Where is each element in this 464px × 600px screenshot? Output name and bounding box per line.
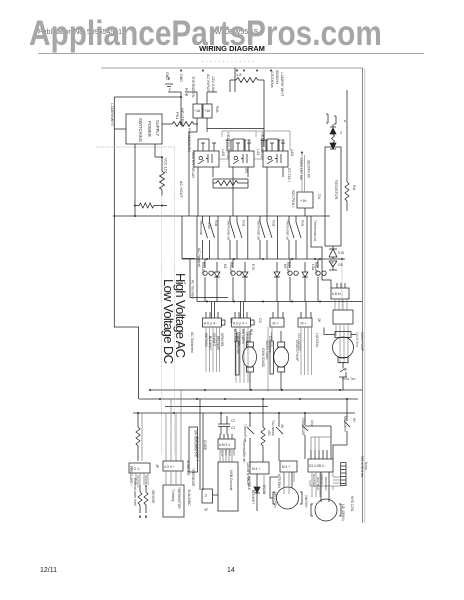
- label p5: [332, 292, 342, 296]
- label VCC: [164, 158, 168, 174]
- label oven sw: [299, 158, 311, 180]
- thermostat S1: [203, 216, 215, 259]
- svg-text:3L WATER: 3L WATER: [186, 460, 190, 476]
- label L1BRK left: [110, 103, 114, 127]
- svg-text:WHT/VIO: WHT/VIO: [204, 333, 208, 347]
- relay K1 heater: [194, 151, 219, 167]
- wire bus413: [133, 412, 355, 414]
- svg-text:A h p 4 -: A h p 4 -: [204, 322, 218, 326]
- svg-text:2: 2: [340, 131, 342, 135]
- wire bend right: [311, 216, 322, 267]
- svg-text:SENSOR: SENSOR: [151, 490, 155, 504]
- wire dotted 342: [341, 259, 343, 310]
- strip connector: [341, 463, 346, 486]
- relay K2 contacts: [233, 139, 251, 151]
- resistor RC filter: [213, 181, 241, 186]
- wire inter4: [306, 216, 308, 259]
- svg-text:WIRING DIAGRAM: WIRING DIAGRAM: [199, 44, 265, 53]
- label relay3: [283, 262, 290, 274]
- diode d3: [274, 262, 280, 302]
- label s2: [227, 219, 246, 240]
- switch door closed: [302, 413, 308, 459]
- svg-text:C3: C3: [231, 426, 235, 430]
- switch lid: [344, 399, 350, 445]
- label harness j2: [233, 329, 253, 347]
- diode down filled: [330, 124, 336, 149]
- connector JE: [308, 459, 333, 472]
- svg-text:Noise: Noise: [364, 462, 368, 470]
- svg-text:3L AL39DC: 3L AL39DC: [187, 489, 191, 506]
- svg-text:GND: GND: [179, 74, 183, 82]
- svg-text:L43: L43: [256, 149, 260, 155]
- harness j3 drop: [268, 327, 272, 391]
- label relay4: [311, 262, 334, 274]
- svg-text:L&S: L&S: [290, 149, 294, 157]
- label ja bundle: [136, 475, 148, 488]
- nodes bus390: [204, 389, 206, 391]
- svg-text:SECPAN I: SECPAN I: [291, 190, 295, 207]
- lock assembly box: [325, 147, 341, 246]
- label rc: [244, 168, 248, 173]
- diode offhi lower: [329, 261, 337, 270]
- wire k3 drop: [267, 167, 283, 216]
- svg-text:BLK/RED: BLK/RED: [312, 474, 316, 488]
- boundary dotted high voltage: [174, 147, 176, 455]
- relay K1 coil: [198, 154, 212, 164]
- label header wires: [220, 450, 236, 457]
- label door closed: [301, 418, 314, 436]
- svg-text:K8: K8: [223, 264, 227, 268]
- label j3: [273, 322, 279, 326]
- wire second left: [141, 413, 143, 461]
- svg-text:A M 3 4: A M 3 4: [219, 443, 230, 447]
- wire gray feed k2: [222, 131, 256, 137]
- svg-text:BLU: BLU: [249, 329, 253, 336]
- boundary gray line: [96, 146, 175, 148]
- box DSW tall: [189, 427, 198, 472]
- label dsw tall: [194, 430, 198, 457]
- node b259: [206, 258, 208, 260]
- header board: [218, 439, 235, 449]
- svg-text:Low Voltage DC: Low Voltage DC: [161, 279, 176, 364]
- svg-text:C5: C5: [258, 318, 262, 323]
- resistor line fuse: [230, 78, 264, 83]
- svg-text:2K: 2K: [317, 318, 321, 323]
- wire p5 pins top: [322, 267, 345, 288]
- nodes bus413: [137, 412, 139, 414]
- label thermdyn: [187, 74, 215, 152]
- diode up filled: [330, 127, 336, 134]
- label gnd: [165, 72, 188, 97]
- header rule: [38, 53, 424, 55]
- svg-text:ORG/BLK: ORG/BLK: [245, 332, 249, 347]
- wire ps bottom leads: [135, 144, 162, 216]
- relay K1 contacts: [198, 139, 216, 151]
- wire ps right lead: [162, 123, 168, 125]
- label touchmatic: [271, 420, 284, 437]
- wire jd drops: [284, 472, 294, 494]
- wire gray k row: [219, 158, 263, 160]
- label PK1: [175, 108, 185, 127]
- label j2: [233, 318, 262, 326]
- caps c2c3: [218, 413, 230, 435]
- label dv: [287, 168, 321, 207]
- wire strip loop: [310, 472, 341, 490]
- resistor probe: [345, 90, 349, 211]
- svg-text:External water level: External water level: [133, 478, 137, 506]
- svg-text:M 4 +: M 4 +: [282, 465, 290, 469]
- lamp L1: [203, 259, 213, 302]
- wire vcc: [161, 157, 163, 171]
- svg-text:NEUTRAL: NEUTRAL: [180, 108, 185, 127]
- door sw box DV: [297, 192, 313, 208]
- svg-text:M +: M +: [301, 322, 307, 326]
- wire top feed: [234, 68, 236, 92]
- svg-text:reset: reset: [207, 222, 211, 229]
- zigzag led: [332, 134, 335, 143]
- label strip: [360, 456, 368, 478]
- connector J2: [232, 318, 251, 327]
- svg-text:GRN/YEL: GRN/YEL: [220, 333, 224, 347]
- wire dv vertical: [302, 153, 305, 193]
- svg-text:AC Neutral: AC Neutral: [197, 248, 201, 267]
- svg-text:2R: 2R: [244, 168, 248, 173]
- lid motor M5: [311, 504, 341, 516]
- svg-text:AC Switched: AC Switched: [190, 332, 194, 353]
- svg-text:12V 3-5A: 12V 3-5A: [211, 76, 215, 92]
- label m5: [341, 496, 354, 521]
- wire jb drops top: [166, 390, 181, 461]
- label led: [340, 119, 346, 135]
- svg-text:BLK: BLK: [224, 450, 228, 455]
- wire j2 pins: [235, 302, 247, 319]
- wire je pins: [311, 450, 331, 459]
- svg-text:323 4/ 32% dw: 323 4/ 32% dw: [360, 456, 364, 478]
- svg-text:POWER: POWER: [147, 121, 152, 137]
- svg-text:LID (OPAN): LID (OPAN): [341, 504, 345, 521]
- label c2c3: [231, 419, 235, 430]
- connector JB: [163, 461, 183, 471]
- svg-text:ThermoFuse: ThermoFuse: [243, 424, 247, 442]
- svg-text:K1: K1: [330, 262, 334, 266]
- wire k1 drop: [198, 167, 213, 216]
- svg-text:BLK/WHT: BLK/WHT: [208, 336, 212, 350]
- wire header pins: [220, 434, 232, 439]
- lamp L4: [316, 259, 326, 302]
- wire gray feed k3: [256, 131, 290, 151]
- svg-text:VIO/WHT: VIO/WHT: [212, 333, 216, 347]
- connector JA: [129, 463, 150, 473]
- svg-text:J7: J7: [204, 494, 208, 498]
- label s1: [199, 219, 218, 235]
- resistor wl2: [144, 485, 148, 518]
- thermistor box: [163, 485, 184, 517]
- svg-text:12/11: 12/11: [40, 567, 57, 574]
- thermal fuse: [247, 413, 254, 463]
- svg-text:Thermostat ext: Thermostat ext: [313, 220, 317, 241]
- svg-text:Turbidity: Turbidity: [171, 489, 175, 502]
- svg-text:VENT FAN: VENT FAN: [273, 492, 277, 508]
- wire j7 link: [213, 494, 219, 496]
- wire bus399: [139, 398, 358, 400]
- svg-text:V15: V15: [338, 251, 344, 255]
- wire dishwasher pair: [200, 399, 203, 490]
- nodes bus399: [159, 398, 161, 400]
- svg-text:WHT/BRN: WHT/BRN: [241, 329, 245, 345]
- diode d2: [242, 262, 248, 302]
- svg-text:AC NEUT: AC NEUT: [179, 181, 183, 198]
- label console: [229, 440, 250, 490]
- wire inter3: [277, 216, 279, 259]
- svg-text:SUPPLY: SUPPLY: [155, 120, 160, 136]
- wire dc branch: [190, 259, 228, 298]
- wire p5 bundle: [335, 299, 347, 310]
- svg-text:USB Console: USB Console: [229, 470, 233, 490]
- label acneutral: [179, 181, 201, 267]
- wire fuse right drop: [263, 80, 265, 147]
- resistor 45C: [261, 399, 265, 462]
- svg-text:AC Thermdor: AC Thermdor: [191, 280, 195, 300]
- wire bus259: [182, 258, 345, 260]
- svg-text:Thermostat: Thermostat: [199, 219, 203, 235]
- label jb: [164, 460, 190, 476]
- svg-text:D3 4 DB 4 -: D3 4 DB 4 -: [309, 464, 326, 468]
- svg-text:PRESSURE +: PRESSURE +: [129, 466, 133, 486]
- label lid: [343, 416, 356, 432]
- drain motor M2: [274, 347, 289, 367]
- wire fuse left: [229, 80, 231, 92]
- label s4: [286, 219, 305, 240]
- svg-text:AC INPUT: AC INPUT: [206, 74, 210, 92]
- svg-text:Vsal: Vsal: [301, 220, 305, 226]
- svg-text:RED/WHT: RED/WHT: [216, 336, 220, 351]
- wire bundles ja: [136, 473, 148, 485]
- svg-text:2nd FAN: 2nd FAN: [304, 495, 308, 508]
- label 154: [297, 333, 319, 351]
- label s5: [313, 220, 317, 241]
- relay K2 coil: [233, 154, 247, 164]
- diode jc: [254, 474, 260, 511]
- svg-text:Vsal: Vsal: [214, 220, 218, 226]
- label jd: [277, 465, 290, 489]
- wire m1 leads: [237, 331, 250, 390]
- label relay2: [229, 262, 255, 274]
- wire bus216: [114, 215, 330, 217]
- wire ac neutral L2: [196, 216, 198, 302]
- svg-text:1-8: 1-8: [236, 73, 242, 77]
- svg-text:HEATER RELAY: HEATER RELAY: [226, 132, 230, 161]
- label j1: [190, 318, 233, 353]
- harness j1: [206, 327, 220, 372]
- wire m2 leads: [272, 331, 281, 390]
- node r2: [161, 205, 163, 207]
- label ja: [131, 464, 159, 471]
- svg-text:THERMISTOR: THERMISTOR: [177, 487, 181, 509]
- box J7: [202, 489, 213, 503]
- wire p6 bundle down: [336, 324, 348, 364]
- wire m3 leads: [324, 328, 356, 365]
- main pump M3: [335, 332, 351, 338]
- svg-text:45C: 45C: [267, 430, 271, 437]
- svg-text:MTR FAN: MTR FAN: [277, 474, 281, 489]
- label m2: [268, 336, 299, 362]
- lamp L3: [288, 259, 298, 302]
- svg-text:K6: K6: [283, 264, 287, 268]
- svg-text:K70: K70: [251, 264, 255, 270]
- wire jb drops: [166, 471, 181, 485]
- wash motor M1: [243, 347, 257, 367]
- frame right border: [362, 68, 364, 523]
- connector P6: [333, 310, 353, 324]
- svg-text:Touchmatic: Touchmatic: [271, 420, 275, 437]
- svg-text:Thermostat ext: Thermostat ext: [286, 219, 290, 240]
- wire bus390: [150, 389, 362, 391]
- label 45C: [267, 430, 271, 437]
- label lock: [334, 180, 338, 200]
- wire ps left lead: [114, 128, 126, 130]
- label m3: [355, 332, 364, 352]
- relay K3 coil: [267, 154, 281, 164]
- relay K3 contacts: [267, 139, 285, 151]
- wire m5 leads: [321, 472, 329, 502]
- svg-text:4P: 4P: [155, 464, 159, 468]
- svg-text:HEATER RELAY: HEATER RELAY: [191, 150, 195, 179]
- svg-text:Vsal: Vsal: [242, 220, 246, 226]
- svg-text:NHD C291: NHD C291: [350, 496, 354, 512]
- label s3: [257, 219, 276, 240]
- resistor wl1: [138, 485, 142, 518]
- wire ac neutral L1: [182, 216, 195, 259]
- wire je drops: [312, 472, 320, 497]
- wire k2 drop: [233, 167, 248, 216]
- wire inter1: [217, 216, 219, 259]
- svg-text:GWA 30A5D: GWA 30A5D: [261, 348, 265, 368]
- svg-text:WHT: WHT: [220, 450, 224, 457]
- switch govt: [339, 365, 347, 391]
- resistor bottom left: [136, 413, 140, 461]
- switch touchmatic: [276, 413, 283, 461]
- label ac thermdor: [191, 280, 195, 300]
- node wl: [139, 516, 141, 518]
- svg-text:M 4 +: M 4 +: [252, 467, 260, 471]
- svg-text:4P: 4P: [204, 508, 208, 512]
- wire t1 bottom leads: [189, 118, 264, 216]
- fuse stubs row: [226, 140, 285, 151]
- svg-text:Vsal: Vsal: [272, 220, 276, 226]
- node b299: [206, 301, 208, 303]
- thermostat S2: [230, 216, 242, 259]
- wire header to console: [220, 449, 232, 462]
- relay K2 heater: [229, 151, 254, 167]
- svg-text:PK1: PK1: [175, 112, 180, 120]
- svg-text:THERMDYN: THERMDYN: [191, 76, 195, 98]
- svg-text:GUIDE: GUIDE: [203, 440, 207, 450]
- pink dots: [180, 70, 271, 71]
- svg-text:NC: NC: [352, 418, 356, 423]
- label thermalfuse: [243, 424, 247, 442]
- svg-text:LQDSEAL: LQDSEAL: [315, 333, 319, 348]
- connector J3: [270, 318, 284, 327]
- wire j3 pins: [273, 302, 283, 319]
- wire m4 leads: [284, 472, 292, 488]
- wire left branch top: [114, 96, 181, 98]
- svg-text:4 O 4 +: 4 O 4 +: [164, 465, 175, 469]
- wire t1 top leads: [187, 92, 217, 104]
- svg-text:RED/WHT: RED/WHT: [324, 477, 328, 491]
- svg-text:L1&BRK WHT: L1&BRK WHT: [280, 72, 284, 97]
- wire lid step: [333, 445, 347, 459]
- svg-text:14: 14: [227, 567, 235, 574]
- svg-text:115/230va: 115/230va: [270, 70, 274, 88]
- svg-text:DISHWASHER T: DISHWASHER T: [195, 437, 199, 461]
- label je drops: [312, 474, 328, 491]
- wire j4 pins: [301, 302, 311, 319]
- svg-text:ThermoGfe wh: ThermoGfe wh: [242, 440, 246, 463]
- resistor PK1 neutral: [168, 122, 198, 127]
- svg-text:LAS: LAS: [221, 149, 225, 157]
- lamp L2: [231, 259, 241, 302]
- wire bus299: [197, 301, 362, 303]
- svg-text:Clsd: Clsd: [310, 420, 314, 427]
- connector P5: [331, 288, 349, 299]
- svg-text:DV: DV: [317, 194, 321, 200]
- svg-text:WHT/BLK: WHT/BLK: [247, 476, 251, 491]
- svg-text:MAIN PUMP: MAIN PUMP: [360, 332, 364, 352]
- thermostat S4: [289, 216, 301, 259]
- svg-text:GRY: GRY: [232, 450, 236, 456]
- diode d4: [302, 262, 308, 302]
- diode offhi upper: [329, 246, 337, 259]
- power supply U10: [126, 114, 162, 144]
- resistor R-neutral horizontal: [134, 203, 167, 208]
- svg-text:THERMDOR: THERMDOR: [191, 468, 195, 487]
- svg-text:VCC 12V: VCC 12V: [164, 158, 168, 174]
- relay K3 heater: [263, 151, 288, 167]
- svg-text:154-D2D500: 154-D2D500: [297, 333, 301, 351]
- label m1: [236, 336, 269, 368]
- wire jc drop2: [263, 474, 265, 494]
- svg-text:+16: +16: [204, 109, 210, 113]
- board console: [218, 462, 238, 511]
- strip pins: [341, 466, 346, 484]
- fan motor M4: [273, 492, 302, 504]
- label relay1: [201, 262, 227, 274]
- label m4: [273, 492, 308, 508]
- wire L1 left vertical: [114, 97, 138, 399]
- label K1: [191, 149, 225, 179]
- wire m4 loop: [270, 477, 278, 498]
- svg-text:WHT/BLK: WHT/BLK: [316, 477, 320, 490]
- resistor R-vcc vertical: [160, 171, 165, 196]
- label govt: [342, 368, 356, 381]
- label j7: [204, 494, 208, 512]
- svg-text:50/60Hz: 50/60Hz: [275, 70, 279, 84]
- node offhi: [314, 258, 316, 260]
- svg-text:9VA: 9VA: [215, 106, 219, 113]
- svg-text:+16: +16: [194, 109, 200, 113]
- svg-text:Govt Tan: Govt Tan: [342, 377, 356, 381]
- label t1: [194, 106, 219, 113]
- harness j2: [236, 327, 248, 383]
- svg-text:OS: OS: [338, 263, 344, 267]
- svg-text:n+: n+: [344, 368, 348, 372]
- svg-text:L1&BRKWHT: L1&BRKWHT: [110, 103, 114, 127]
- svg-text:RED: RED: [228, 450, 232, 456]
- label thermistor: [171, 487, 191, 509]
- node bus216 a: [113, 215, 115, 217]
- green dotted remnant: [202, 61, 255, 63]
- capacitor strip M2: [270, 341, 273, 374]
